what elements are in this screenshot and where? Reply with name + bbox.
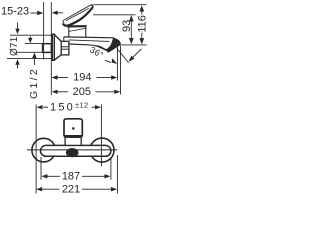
svg-text:187: 187 [62, 171, 80, 183]
svg-text:Ø71: Ø71 [9, 36, 20, 56]
svg-text:15-23: 15-23 [1, 6, 29, 18]
svg-text:194: 194 [73, 72, 91, 84]
svg-text:116: 116 [137, 15, 149, 33]
svg-text:G1/2: G1/2 [28, 67, 40, 99]
svg-text:221: 221 [62, 184, 80, 196]
svg-text:93: 93 [121, 20, 133, 32]
svg-text:205: 205 [73, 86, 91, 98]
